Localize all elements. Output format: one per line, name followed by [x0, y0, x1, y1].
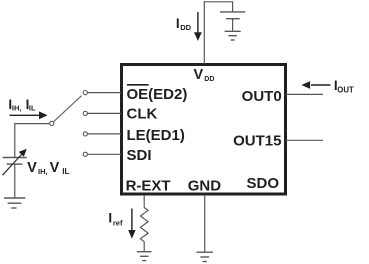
wire R-EXT pin to resistor — [143, 195, 145, 208]
svg-text:IL: IL — [29, 103, 36, 112]
label VIH, VIL — [27, 160, 69, 176]
pin label LE(ED1) — [127, 127, 185, 144]
source V1 (VIH/VIL variable source) plates — [3, 158, 27, 165]
svg-text:OE(ED2): OE(ED2) — [127, 86, 188, 103]
pin label OUT15 — [233, 132, 281, 149]
svg-text:DD: DD — [180, 23, 191, 32]
wire source to ground — [14, 164, 16, 198]
wire battery to ground — [232, 19, 234, 32]
current arrow IIH/IIL — [10, 111, 48, 119]
ground symbol below resistor — [137, 252, 151, 261]
label IDD — [176, 16, 192, 32]
wire resistor to ground — [143, 242, 145, 252]
pin label SDI — [127, 147, 152, 164]
svg-text:IL: IL — [62, 167, 69, 176]
svg-text:IH,: IH, — [12, 103, 22, 112]
wire CLK pin stub — [88, 112, 122, 114]
node SDI contact circle — [83, 152, 87, 156]
wire LE(ED1) pin stub — [88, 133, 122, 135]
label IOUT — [334, 78, 354, 94]
switch S1 blade — [53, 96, 81, 122]
svg-text:IH,: IH, — [38, 167, 48, 176]
svg-text:V: V — [50, 160, 60, 176]
svg-text:R-EXT: R-EXT — [126, 178, 171, 195]
svg-text:I: I — [108, 211, 112, 226]
svg-text:LE(ED1): LE(ED1) — [127, 127, 185, 144]
node CLK contact circle — [83, 111, 87, 115]
pin label OE(ED2) with overline on OE — [127, 85, 188, 103]
pin label OUT0 — [242, 88, 282, 105]
label IIH, IIL — [8, 97, 36, 113]
node OE contact circle — [83, 91, 87, 95]
wire OE(ED2) pin stub — [88, 92, 122, 94]
svg-text:V: V — [27, 160, 37, 176]
svg-text:GND: GND — [188, 178, 222, 195]
resistor R-EXT — [140, 208, 148, 242]
svg-text:SDI: SDI — [127, 147, 152, 164]
svg-text:DD: DD — [204, 76, 214, 83]
variable-adjust arrow across source — [3, 149, 27, 176]
pin label VDD — [194, 67, 215, 83]
svg-text:CLK: CLK — [127, 105, 158, 122]
label Iref — [108, 211, 123, 228]
pin label R-EXT — [126, 178, 171, 195]
svg-text:OUT0: OUT0 — [242, 88, 282, 105]
pin label CLK — [127, 105, 158, 122]
wire OUT0 stub — [286, 93, 323, 95]
svg-text:V: V — [194, 67, 204, 83]
wire from source to switch pole — [15, 124, 50, 158]
svg-text:OUT: OUT — [337, 86, 354, 95]
IC body U1 — [122, 65, 286, 195]
wire OUT15 stub — [286, 139, 323, 141]
wire GND pin to ground — [204, 195, 206, 252]
current arrow IOUT — [302, 81, 331, 89]
node LE contact circle — [83, 132, 87, 136]
switch S1 common pole circle — [50, 121, 54, 125]
wire VDD pin to supply — [204, 2, 232, 64]
battery V2 (VDD supply) — [220, 12, 245, 19]
current arrow IDD — [194, 12, 202, 41]
ground symbol below battery — [225, 31, 241, 40]
ground symbol below source — [4, 198, 25, 208]
current arrow Iref — [128, 209, 135, 239]
svg-text:OUT15: OUT15 — [233, 132, 281, 149]
pin label GND — [188, 178, 222, 195]
svg-text:I: I — [176, 16, 180, 31]
svg-text:ref: ref — [113, 218, 123, 227]
svg-text:SDO: SDO — [246, 175, 279, 192]
wire SDI pin stub — [88, 153, 122, 155]
pin label SDO — [246, 175, 279, 192]
ground symbol below GND — [197, 252, 214, 261]
